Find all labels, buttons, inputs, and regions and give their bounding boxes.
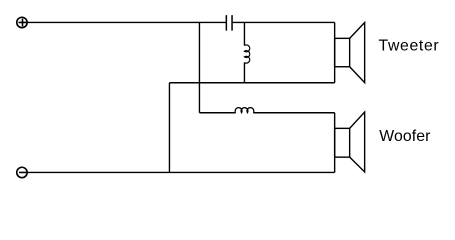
svg-text:Tweeter: Tweeter	[379, 38, 439, 55]
svg-text:Woofer: Woofer	[379, 128, 430, 145]
